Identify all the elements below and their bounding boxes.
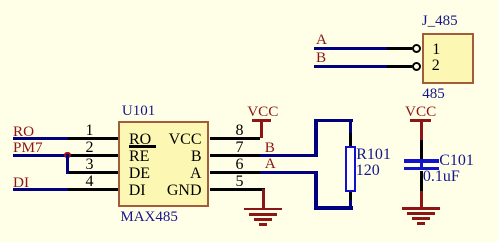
MAX485 value label [120, 210, 178, 225]
net label DI [13, 175, 29, 190]
net label RO [13, 124, 34, 139]
overline bar for RE pin [129, 145, 157, 148]
pin name RO (pin 1) [129, 132, 151, 148]
wire net B to connector [314, 65, 387, 68]
pin number 8 [236, 123, 244, 139]
wire GND drop from pin 5 [262, 189, 265, 208]
R101 designator label [356, 147, 391, 163]
pin 5 of U101 [210, 188, 266, 191]
ground symbol at U101 bar 1 [244, 208, 282, 211]
wire net B from pin 7 [260, 154, 318, 157]
power label VCC at U101 [247, 104, 278, 119]
pin number 3 [86, 157, 94, 173]
pin name RE (pin 2) [129, 149, 149, 165]
wire net PM7 [13, 154, 66, 157]
pin 1 of U101 [68, 137, 118, 140]
pin 6 of U101 [210, 171, 260, 174]
wire GND drop below C101 [420, 191, 423, 208]
485 value label [422, 87, 445, 102]
pin 8 of U101 [210, 137, 260, 140]
wire loop left vertical B segment [314, 119, 317, 157]
pin number 7 [236, 140, 244, 156]
wire net RO [13, 137, 68, 140]
pin 2 of U101 [66, 154, 118, 157]
pin 7 of U101 [210, 154, 260, 157]
pin bottom of R101 [349, 192, 352, 200]
net label A at connector [316, 32, 327, 47]
wire loop right vertical top [349, 119, 352, 133]
capacitor C101 top plate [404, 159, 439, 162]
pin bottom of C101 [420, 171, 423, 191]
wire vertical PM7 to DE [66, 154, 69, 174]
net label PM7 [13, 140, 43, 155]
wire loop left vertical A segment [314, 171, 317, 210]
pin name VCC (pin 8) [169, 132, 202, 148]
pin 3 of U101 [68, 171, 118, 174]
power label VCC at C101 [405, 104, 436, 119]
pin name DI (pin 4) [129, 183, 146, 199]
pin number 5 [236, 174, 244, 190]
pin 1 of J_485 [387, 47, 413, 50]
capacitor C101 inter-plate lead [420, 163, 423, 168]
C101 designator label [439, 153, 474, 169]
power VCC lead above pin 8 [260, 121, 263, 138]
resistor R101 body [345, 146, 356, 192]
ground symbol at C101 bar 4 [417, 222, 425, 225]
ground symbol at C101 bar 2 [407, 212, 435, 215]
0.1uF value label [423, 169, 460, 185]
net label B at pin 7 [265, 140, 275, 155]
pin number 1 [86, 123, 94, 139]
wire loop right vertical bottom [349, 200, 352, 210]
wire net A from pin 6 [260, 171, 318, 174]
wire net A to connector [314, 47, 387, 50]
power VCC lead above C101 [420, 121, 423, 140]
pin 2 circle of J_485 [412, 62, 421, 71]
wire loop top horizontal [314, 119, 352, 122]
pin top of C101 [420, 140, 423, 160]
power VCC bar above pin 8 [252, 119, 271, 122]
pin number 2 of J_485 [432, 58, 440, 74]
ground symbol at U101 bar 3 [254, 218, 272, 221]
pin 1 circle of J_485 [412, 44, 421, 53]
pin name DE (pin 3) [129, 166, 150, 182]
120 value label [356, 163, 380, 179]
net label A at pin 6 [265, 156, 276, 171]
pin name B (pin 7) [191, 149, 202, 165]
ground symbol at C101 bar 1 [402, 207, 440, 210]
U101 designator label [122, 104, 155, 119]
wire net DI [13, 188, 68, 191]
pin 4 of U101 [68, 188, 118, 191]
ground symbol at U101 bar 2 [249, 213, 277, 216]
pin number 4 [86, 174, 94, 190]
IC U101 MAX485 body [118, 121, 209, 207]
pin number 2 [86, 140, 94, 156]
J_485 designator label [422, 14, 458, 29]
pin number 6 [236, 157, 244, 173]
ground symbol at C101 bar 3 [412, 217, 430, 220]
power VCC bar above C101 [410, 119, 431, 122]
ground symbol at U101 bar 4 [259, 223, 267, 226]
junction dot on PM7 net [64, 152, 71, 159]
wire loop bottom horizontal [314, 206, 352, 209]
pin 2 of J_485 [387, 65, 413, 68]
connector J_485 body [422, 33, 475, 84]
capacitor C101 bottom plate [404, 167, 439, 170]
pin number 1 of J_485 [432, 42, 440, 58]
pin name GND (pin 5) [167, 183, 202, 199]
pin top of R101 [349, 133, 352, 147]
net label B at connector [316, 50, 326, 65]
pin name A (pin 6) [190, 166, 202, 182]
